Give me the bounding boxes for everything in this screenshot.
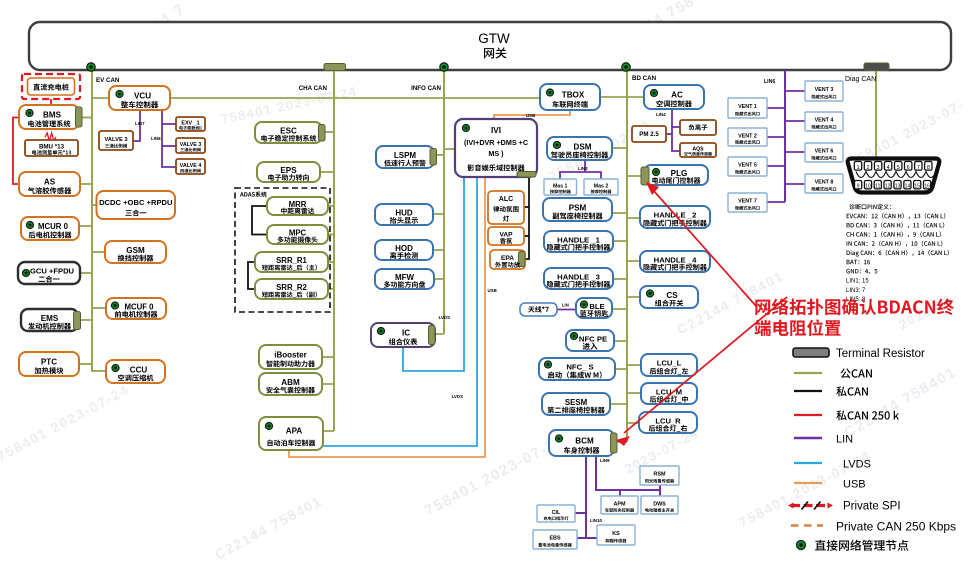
svg-text:(IVI+DVR +DMS +C: (IVI+DVR +DMS +C (464, 138, 528, 147)
display HUD (375, 204, 433, 225)
wire BD CAN to CS (627, 296, 640, 298)
svg-text:GSM: GSM (126, 246, 145, 255)
svg-text:3: 3 (877, 165, 880, 171)
sensor AQS (680, 143, 716, 157)
wire LIN6 to VENT6 (785, 151, 805, 153)
controller EPS (257, 162, 320, 182)
wire SRR_R1 to CHA CAN (328, 261, 334, 263)
svg-text:LIN6: LIN6 (764, 79, 775, 85)
wire EV CAN elbow to CCU (91, 370, 106, 372)
svg-text:7: 7 (917, 165, 920, 171)
svg-text:HANDLE _1: HANDLE _1 (557, 235, 600, 244)
svg-text:RSM: RSM (654, 472, 666, 478)
wire iBooster to CHA CAN (322, 356, 334, 358)
svg-text:INFO CAN: INFO CAN (411, 85, 441, 92)
amplifier EPA (490, 250, 525, 269)
door handle HANDLE_1 (544, 231, 613, 252)
svg-text:VENT 4: VENT 4 (815, 118, 834, 124)
legend public CAN (794, 368, 872, 378)
terminal resistor on GTW at Diag CAN (864, 63, 889, 71)
svg-text:KS: KS (612, 531, 620, 537)
svg-text:CS: CS (666, 291, 678, 300)
controller GSM (105, 241, 166, 263)
lamp LCU_M (641, 383, 697, 404)
svg-text:LIN: LIN (836, 434, 853, 446)
module LSPM (376, 146, 437, 168)
svg-text:BLE: BLE (589, 302, 604, 311)
bus EV CAN trunk (92, 67, 120, 371)
svg-text:VENT 2: VENT 2 (738, 133, 757, 139)
svg-text:BCM: BCM (575, 437, 594, 446)
svg-text:SESM: SESM (565, 398, 588, 407)
svg-text:Mas 1: Mas 1 (553, 183, 568, 189)
wire BD CAN to HANDLE_2 (627, 217, 640, 219)
svg-text:EBS: EBS (549, 536, 560, 542)
switch DWS (641, 496, 678, 514)
svg-text:LCU_L: LCU_L (657, 359, 682, 368)
svg-text:VENT 3: VENT 3 (815, 87, 834, 93)
svg-text:EPS: EPS (280, 166, 297, 175)
svg-text:BD CAN: BD CAN (632, 75, 657, 82)
controller GCU (18, 262, 80, 284)
controller EMS (21, 309, 81, 331)
svg-text:PLG: PLG (671, 169, 688, 178)
svg-text:LIN10: LIN10 (590, 518, 603, 523)
svg-text:12: 12 (885, 184, 891, 190)
svg-text:SRR_R2: SRR_R2 (276, 283, 307, 292)
converter DCDC (97, 191, 176, 219)
svg-text:HANDLE _4: HANDLE _4 (654, 255, 697, 264)
svg-text:9: 9 (857, 184, 860, 190)
air vent VENT 2 (728, 128, 767, 146)
controller APA (259, 417, 323, 450)
svg-text:6: 6 (907, 165, 910, 171)
AC controller (644, 85, 704, 109)
svg-text:USB: USB (526, 113, 535, 118)
svg-text:LVDS: LVDS (843, 459, 871, 471)
svg-text:LIN9: LIN9 (600, 458, 610, 463)
wire LIN6 to VENT8 (785, 183, 805, 185)
controller BMS (19, 105, 82, 129)
airbag ABM (259, 373, 322, 395)
svg-text:VAP: VAP (499, 232, 513, 239)
svg-text:LIN: LIN (562, 303, 569, 308)
controller VCU (109, 86, 170, 110)
air vent VENT 3 (805, 81, 843, 101)
cluster IC (371, 323, 435, 347)
valve VALVE3 left (99, 131, 133, 150)
controller MCUR (21, 217, 79, 240)
sensor PM2.5 (632, 126, 666, 142)
svg-text:EPA: EPA (501, 255, 514, 262)
wire DSM to BD CAN (612, 147, 627, 149)
legend USB (794, 479, 866, 491)
OBD diagnostic connector (848, 159, 940, 193)
svg-text:Mas 2: Mas 2 (594, 183, 609, 189)
svg-text:MFW: MFW (395, 273, 415, 282)
lamp CIL (537, 505, 575, 522)
svg-text:PTC: PTC (41, 358, 57, 367)
bus Diag CAN trunk (845, 70, 876, 159)
start NFC_S (539, 358, 615, 380)
svg-text:AC: AC (671, 91, 683, 100)
ambient light ALC (488, 191, 524, 224)
svg-text:BMS: BMS (43, 111, 62, 120)
legend private CAN (794, 386, 868, 396)
wire BD CAN to PLG (627, 175, 642, 177)
switch CS (640, 286, 698, 308)
controller ESC (255, 122, 325, 143)
red annotation text BDACN terminal resistor (755, 298, 955, 336)
booster iBooster (259, 345, 322, 369)
svg-text:EMS: EMS (41, 314, 59, 323)
svg-text:13: 13 (895, 184, 901, 190)
wire BMS to EV CAN (82, 117, 92, 119)
svg-text:DWS: DWS (653, 501, 666, 507)
legend LVDS (794, 459, 871, 471)
wire EPS to CHA CAN (320, 171, 334, 173)
svg-text:NFC_ S: NFC_ S (566, 363, 593, 372)
radar MRR (267, 197, 328, 215)
diagnostic PIN definition text (846, 204, 949, 303)
svg-text:VENT 7: VENT 7 (738, 199, 757, 205)
wire GCU to EV CAN (80, 272, 92, 274)
svg-text:MPC: MPC (289, 229, 307, 238)
wire LIN10 BCM to CIL/EBS/KS (575, 456, 603, 538)
legend private CAN 250 Kbps (791, 520, 956, 534)
svg-text:LIN7: LIN7 (135, 121, 145, 126)
svg-text:MCUF 0: MCUF 0 (124, 302, 154, 311)
sensor HOD (375, 240, 433, 260)
sensor KS (597, 525, 635, 545)
wire DCDC to EV CAN (92, 204, 97, 206)
svg-text:IC: IC (402, 329, 410, 338)
wire MCUF to EV CAN (92, 307, 106, 309)
svg-text:EXV _1: EXV _1 (181, 121, 199, 127)
node INFO CAN junction dot (440, 63, 448, 71)
module APM (601, 496, 638, 514)
fragrance VAP (488, 227, 524, 245)
svg-text:VENT 6: VENT 6 (815, 149, 834, 155)
compressor CCU (106, 360, 165, 383)
svg-text:ABM: ABM (281, 378, 300, 387)
wire TBOX to BD CAN (600, 96, 627, 98)
air vent VENT 5 (728, 157, 767, 176)
svg-text:PM 2.5: PM 2.5 (639, 131, 659, 138)
wire ABM to CHA CAN (322, 383, 334, 385)
head unit IVI (455, 119, 537, 177)
svg-text:1: 1 (856, 165, 859, 171)
wire LIN7 VCU to VALVE3a (133, 110, 145, 141)
tailgate PLG (641, 165, 708, 185)
svg-text:Terminal Resistor: Terminal Resistor (836, 348, 925, 360)
svg-text:EV CAN: EV CAN (96, 77, 120, 84)
air vent VENT 1 (728, 98, 767, 118)
sensor AS (19, 172, 80, 196)
wire CHA CAN elbow to APA (323, 430, 334, 432)
air vent VENT 8 (805, 174, 843, 193)
svg-text:Private SPI: Private SPI (843, 501, 901, 513)
legend direct network management node (797, 540, 909, 551)
svg-text:LVDS: LVDS (439, 315, 450, 320)
svg-text:14: 14 (905, 184, 911, 190)
anion generator (680, 120, 716, 135)
entry NFC_PE (566, 330, 614, 351)
svg-text:IVI: IVI (491, 126, 501, 135)
private SPI symbol BMS-BMU (45, 133, 56, 141)
wire VCU to TBOX link (170, 97, 540, 99)
svg-text:Diag CAN: Diag CAN (845, 76, 876, 83)
wire BD CAN to HANDLE_4 (627, 260, 640, 262)
svg-text:VALVE 3: VALVE 3 (180, 142, 202, 148)
svg-text:2: 2 (866, 165, 869, 171)
svg-text:8: 8 (927, 165, 930, 171)
wire SESM to BD CAN (610, 403, 627, 405)
svg-text:CHA CAN: CHA CAN (299, 85, 328, 92)
node BD CAN junction dot (622, 63, 630, 71)
legend private SPI (788, 501, 901, 513)
massage Mas 1 (544, 179, 577, 195)
svg-text:HANDLE _3: HANDLE _3 (557, 272, 600, 281)
lamp LCU_R (639, 412, 697, 433)
wire private CAN bracket SRR_R1-SRR_R2 (248, 262, 255, 289)
svg-text:CIL: CIL (552, 510, 561, 516)
svg-text:GTW: GTW (478, 31, 510, 46)
radar SRR_R2 (255, 279, 328, 299)
red arrow to BCM terminal resistor (616, 297, 787, 446)
ADAS system dashed group box (235, 188, 330, 312)
svg-text:PSM: PSM (569, 203, 587, 212)
wire HANDLE_3 to BD CAN (613, 278, 627, 280)
wire LVDS IVI to APA (324, 177, 478, 446)
wire LIN6 to VENT4 (785, 120, 805, 122)
bus BD CAN trunk (627, 67, 657, 442)
wire LIN8 VCU to EXV/VALVE3/VALVE4 (151, 110, 176, 167)
svg-text:HOD: HOD (395, 244, 413, 253)
valve VALVE3 right (176, 138, 205, 153)
seat DSM (547, 137, 612, 160)
air vent VENT 7 (728, 193, 767, 212)
svg-text:LCU_R: LCU_R (655, 416, 681, 425)
wire BD CAN to AC (627, 96, 644, 98)
svg-text:15: 15 (914, 184, 920, 190)
svg-text:LIN8: LIN8 (151, 136, 161, 141)
wire LIN9 BCM to RSM/APM/DWS (596, 456, 660, 496)
svg-text:AQS: AQS (692, 147, 704, 153)
wire BD CAN elbow to BCM (617, 441, 627, 443)
svg-text:VENT 5: VENT 5 (738, 163, 757, 169)
svg-text:LIN1: 15: LIN1: 15 (846, 279, 869, 285)
air vent VENT 4 (805, 112, 843, 131)
valve EXV_1 (176, 117, 205, 131)
module BMU (25, 140, 78, 156)
svg-text:GCU +FPDU: GCU +FPDU (30, 267, 75, 276)
wire HANDLE_1 to BD CAN (613, 240, 627, 242)
lamp LCU_L (641, 354, 697, 376)
svg-text:LVDS: LVDS (452, 394, 463, 399)
svg-text:VCU: VCU (134, 92, 151, 101)
wire HUD to INFO CAN (433, 213, 444, 215)
legend terminal resistor symbol (793, 348, 925, 360)
wire LVDS IVI to IC (403, 177, 464, 371)
wire INFO CAN to IVI (444, 148, 455, 150)
svg-text:TBOX: TBOX (562, 91, 585, 100)
svg-text:LIN4: LIN4 (656, 112, 666, 117)
svg-text:16: 16 (924, 184, 930, 190)
legend LIN (794, 434, 853, 446)
svg-text:APA: APA (286, 427, 303, 436)
svg-text:11: 11 (875, 184, 880, 190)
wire HOD to INFO CAN (433, 249, 444, 251)
svg-text:LIN3: LIN3 (578, 166, 588, 171)
wire LIN6 to VENT3 (785, 90, 805, 92)
svg-text:USB: USB (488, 288, 497, 293)
antenna x7 (520, 303, 557, 316)
wire private CAN bracket MRR-MPC (252, 206, 267, 235)
svg-text:Private CAN 250 Kbps: Private CAN 250 Kbps (836, 520, 956, 534)
wire LIN6 to VENT2 (767, 136, 785, 138)
wire PTC to EV CAN (79, 363, 92, 365)
wire LSPM to INFO CAN (437, 154, 444, 156)
wire red private CAN 250k BMS to AS (13, 118, 19, 185)
wire MCUR to EV CAN (79, 225, 92, 227)
wire VCU to EV CAN (92, 97, 109, 99)
svg-text:VENT 1: VENT 1 (738, 104, 757, 110)
wire GSM to EV CAN (92, 251, 105, 253)
wire LIN6 to VENT1 (767, 107, 785, 109)
wire AS to EV CAN (80, 183, 92, 185)
wire SRR_R2 to CHA CAN (328, 288, 334, 290)
wheel MFW (375, 269, 434, 289)
svg-text:SRR_R1: SRR_R1 (276, 256, 307, 265)
svg-text:DCDC +OBC +RPDU: DCDC +OBC +RPDU (99, 198, 173, 207)
wire EMS to EV CAN (81, 319, 92, 321)
wire private CAN IVI to ALC/VAP/EPA (524, 177, 529, 259)
radar SRR_R1 (255, 252, 328, 272)
red arrow to PLG terminal resistor (646, 182, 756, 306)
wire BD CAN to LCU_R (627, 422, 639, 424)
svg-text:MCUR 0: MCUR 0 (38, 222, 69, 231)
telematics TBOX (540, 84, 600, 110)
wire ESC to CHA CAN (325, 131, 334, 133)
svg-text:DSM: DSM (574, 142, 592, 151)
bus INFO CAN trunk (411, 67, 444, 334)
svg-text:iBooster: iBooster (274, 351, 306, 360)
wire USB IVI to TBOX (494, 110, 570, 119)
wire MPC to CHA CAN (328, 234, 334, 236)
svg-text:VALVE 4: VALVE 4 (180, 163, 202, 169)
svg-text:ALC: ALC (499, 196, 513, 203)
wire MRR to CHA CAN (328, 205, 334, 207)
sensor RSM (640, 466, 679, 485)
svg-text:APM: APM (614, 501, 626, 507)
svg-text:AS: AS (44, 178, 56, 187)
massage Mas 2 (584, 179, 618, 195)
node EV CAN junction dot (87, 63, 95, 71)
controller MCUF (106, 298, 166, 319)
wire LIN4 AC to PM2.5/anion/AQS (656, 109, 680, 151)
wire NFC_PE to BD CAN (614, 340, 627, 342)
module PTC (19, 352, 79, 376)
bus LIN6 trunk (764, 70, 785, 202)
air vent VENT 6 (805, 143, 843, 162)
svg-text:HUD: HUD (395, 208, 413, 217)
DC charging pile dashed box (22, 74, 80, 99)
svg-text:MS ): MS ) (488, 149, 504, 158)
wire BD CAN to LCU_L (627, 364, 641, 366)
svg-text:VENT 8: VENT 8 (815, 180, 834, 186)
wire USB IVI to APA (289, 177, 497, 457)
svg-text:BMU *13: BMU *13 (39, 144, 65, 151)
sensor EBS (533, 530, 577, 549)
svg-text:5: 5 (897, 165, 900, 171)
key BLE (576, 298, 612, 318)
svg-text:NFC PE: NFC PE (579, 334, 607, 343)
wire PSM to BD CAN (612, 212, 627, 214)
door handle HANDLE_2 (640, 206, 710, 228)
wire MFW to INFO CAN (434, 278, 444, 280)
svg-text:LSPM: LSPM (394, 151, 417, 160)
valve VALVE4 (176, 159, 205, 174)
wire LIN6 elbow to VENT7 (767, 201, 785, 203)
svg-text:4: 4 (887, 165, 890, 171)
svg-text:VALVE 3: VALVE 3 (104, 137, 128, 143)
wire BLE to BD CAN (612, 308, 627, 310)
wire LIN3 DSM to Mas1/Mas2 (560, 160, 601, 179)
wire BD CAN to LCU_M (627, 392, 641, 394)
camera MPC (267, 225, 328, 244)
wire LIN6 to VENT5 (767, 165, 785, 167)
terminal resistor on GTW at CHA CAN (324, 64, 346, 71)
bus CHA CAN trunk (299, 70, 334, 431)
wire LIN antenna to BLE (557, 303, 576, 310)
seat PSM (543, 198, 612, 221)
door handle HANDLE_4 (640, 251, 710, 272)
wire NFC_S to BD CAN (615, 368, 627, 370)
gateway GTW bar (29, 22, 951, 70)
seat SESM (542, 393, 610, 415)
svg-text:LIN3: 7: LIN3: 7 (846, 288, 866, 294)
legend private CAN 250k (794, 410, 899, 420)
body controller BCM (549, 430, 617, 456)
wire INFO CAN elbow to IC (435, 333, 444, 335)
svg-text:ESC: ESC (280, 126, 297, 135)
door handle HANDLE_3 (544, 268, 613, 289)
wire red DC charger to BMS (50, 99, 52, 105)
svg-text:USB: USB (843, 479, 866, 491)
svg-text:10: 10 (865, 184, 871, 190)
svg-text:CCU: CCU (130, 365, 148, 374)
